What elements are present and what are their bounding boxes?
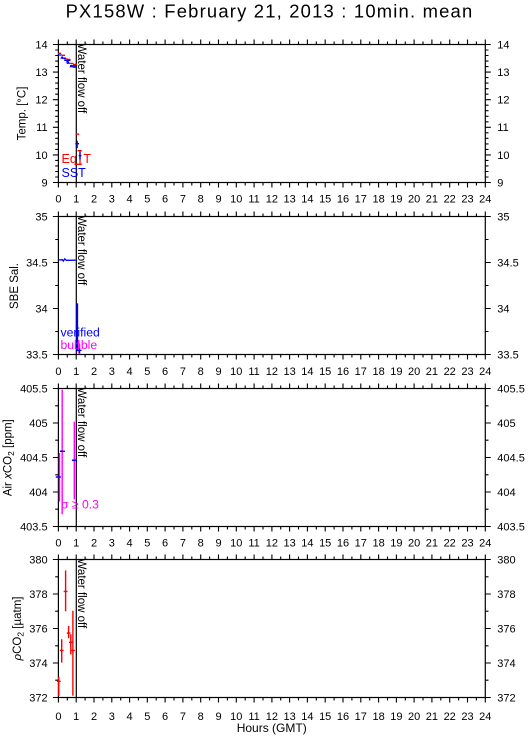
svg-text:12: 12 [497,95,509,107]
svg-text:bubble: bubble [61,338,98,352]
svg-text:9: 9 [497,177,503,189]
svg-text:10: 10 [35,150,47,162]
svg-text:19: 19 [390,194,402,206]
svg-text:35: 35 [497,211,509,223]
svg-text:13: 13 [283,537,295,549]
svg-text:376: 376 [497,623,515,635]
svg-text:Hours (GMT): Hours (GMT) [237,721,307,735]
svg-text:1: 1 [73,711,79,723]
svg-text:Water flow off: Water flow off [75,559,87,629]
svg-text:0: 0 [55,194,61,206]
panel1 SST blue triangle markers [60,56,76,68]
svg-text:20: 20 [408,537,420,549]
svg-text:6: 6 [162,711,168,723]
svg-text:374: 374 [29,658,47,670]
svg-text:Eq: Eq [62,152,77,166]
svg-text:7: 7 [180,711,186,723]
panel1 SST blue dash markers [58,55,76,66]
svg-text:22: 22 [444,537,456,549]
svg-text:23: 23 [461,537,473,549]
svg-text:378: 378 [29,589,47,601]
panel2 salinity blue trace [58,259,75,261]
svg-text:8: 8 [198,537,204,549]
svg-text:7: 7 [180,537,186,549]
svg-text:SBE Sal.: SBE Sal. [9,263,21,309]
svg-text:1: 1 [73,194,79,206]
svg-text:24: 24 [479,537,491,549]
svg-text:405: 405 [497,418,515,430]
svg-text:405.5: 405.5 [497,383,525,395]
svg-text:8: 8 [198,711,204,723]
svg-text:23: 23 [461,711,473,723]
svg-text:33.5: 33.5 [26,349,47,361]
svg-text:23: 23 [461,194,473,206]
svg-text:14: 14 [35,39,47,51]
svg-text:15: 15 [319,711,331,723]
svg-text:16: 16 [337,711,349,723]
svg-text:9: 9 [215,537,221,549]
svg-text:15: 15 [319,366,331,378]
svg-text:21: 21 [426,194,438,206]
svg-text:12: 12 [266,194,278,206]
water-flow-off event lines [75,45,77,183]
svg-text:2: 2 [91,194,97,206]
svg-text:11: 11 [248,194,259,206]
svg-text:21: 21 [426,366,438,378]
svg-text:3: 3 [109,537,115,549]
x tick labels [55,194,491,723]
svg-text:1: 1 [73,366,79,378]
svg-text:4: 4 [127,537,133,549]
svg-text:3: 3 [109,711,115,723]
svg-text:11: 11 [36,122,47,134]
svg-text:5: 5 [144,537,150,549]
svg-text:2: 2 [91,366,97,378]
svg-text:17: 17 [355,366,367,378]
svg-text:11: 11 [248,366,259,378]
svg-text:21: 21 [426,711,438,723]
svg-text:8: 8 [198,194,204,206]
svg-text:17: 17 [355,711,367,723]
svg-text:8: 8 [198,366,204,378]
svg-text:9: 9 [215,194,221,206]
svg-text:17: 17 [355,194,367,206]
svg-text:3: 3 [109,366,115,378]
panel1 EqT red dash markers [58,53,77,64]
svg-text:1: 1 [73,537,79,549]
svg-text:2: 2 [91,711,97,723]
svg-text:σ ≥ 0.3: σ ≥ 0.3 [61,497,99,511]
svg-text:34.5: 34.5 [497,257,518,269]
svg-text:4: 4 [127,366,133,378]
panel1 isolated red dash at water-off [76,133,80,135]
svg-text:34: 34 [497,303,509,315]
svg-text:SST: SST [62,166,87,180]
svg-text:13: 13 [497,67,509,79]
svg-text:35: 35 [35,211,47,223]
svg-text:380: 380 [497,554,515,566]
svg-text:9: 9 [215,711,221,723]
panel1 blue error marker lower [79,152,82,160]
svg-text:Water flow off: Water flow off [75,44,87,114]
svg-text:18: 18 [372,194,384,206]
svg-text:3: 3 [109,194,115,206]
svg-text:20: 20 [408,366,420,378]
svg-text:10: 10 [230,366,242,378]
svg-text:ρCO2 [µatm]: ρCO2 [µatm] [12,597,26,662]
svg-text:19: 19 [390,537,402,549]
svg-text:11: 11 [248,537,259,549]
svg-text:4: 4 [127,711,133,723]
svg-text:Air xCO2 [ppm]: Air xCO2 [ppm] [3,419,17,496]
svg-text:19: 19 [390,711,402,723]
svg-text:16: 16 [337,537,349,549]
svg-text:6: 6 [162,194,168,206]
svg-text:372: 372 [497,692,515,704]
svg-text:12: 12 [266,537,278,549]
svg-text:7: 7 [180,194,186,206]
svg-text:4: 4 [127,194,133,206]
svg-text:7: 7 [180,366,186,378]
svg-text:24: 24 [479,194,491,206]
svg-text:Water flow off: Water flow off [75,388,87,458]
panel2 bubble magenta marker [78,340,80,354]
panel3 blue mean dashes [56,451,77,477]
svg-text:0: 0 [55,711,61,723]
svg-text:34: 34 [35,303,47,315]
svg-text:13: 13 [35,67,47,79]
svg-text:6: 6 [162,366,168,378]
svg-text:19: 19 [390,366,402,378]
svg-text:22: 22 [444,366,456,378]
svg-text:9: 9 [41,177,47,189]
svg-text:21: 21 [426,537,438,549]
svg-text:14: 14 [301,366,313,378]
panel1 blue error marker upper [75,141,79,148]
svg-text:14: 14 [301,194,313,206]
panel1 red error bar [75,151,82,165]
svg-text:13: 13 [283,366,295,378]
svg-text:378: 378 [497,589,515,601]
svg-text:18: 18 [372,366,384,378]
panel3 xCO2 magenta error bars [60,390,75,515]
svg-text:10: 10 [230,537,242,549]
svg-text:22: 22 [444,194,456,206]
svg-text:372: 372 [29,692,47,704]
svg-text:11: 11 [497,122,508,134]
panel4 pCO2 red error bars [57,570,75,696]
panel2 blue plus marker [78,347,82,354]
svg-text:PX158W : February 21, 2013 : 1: PX158W : February 21, 2013 : 10min. mean [66,1,474,22]
svg-text:9: 9 [215,366,221,378]
svg-text:23: 23 [461,366,473,378]
svg-text:5: 5 [144,366,150,378]
svg-text:18: 18 [372,537,384,549]
svg-text:10: 10 [497,150,509,162]
svg-text:15: 15 [319,194,331,206]
svg-text:6: 6 [162,537,168,549]
svg-text:22: 22 [444,711,456,723]
svg-text:15: 15 [319,537,331,549]
svg-text:376: 376 [29,623,47,635]
svg-text:14: 14 [301,537,313,549]
svg-text:404: 404 [497,487,515,499]
svg-text:404.5: 404.5 [497,452,525,464]
svg-text:34.5: 34.5 [26,257,47,269]
svg-text:10: 10 [230,194,242,206]
svg-text:20: 20 [408,194,420,206]
svg-text:380: 380 [29,554,47,566]
svg-text:403.5: 403.5 [20,521,48,533]
svg-text:33.5: 33.5 [497,349,518,361]
svg-text:404.5: 404.5 [20,452,48,464]
svg-text:5: 5 [144,194,150,206]
svg-text:24: 24 [479,711,491,723]
plot frame and axes [53,40,491,703]
svg-text:404: 404 [29,487,47,499]
svg-text:405.5: 405.5 [20,383,48,395]
svg-text:13: 13 [283,194,295,206]
panel2 salinity drop line [76,303,78,351]
svg-text:16: 16 [337,194,349,206]
svg-text:405: 405 [29,418,47,430]
svg-text:Water flow off: Water flow off [75,216,87,286]
svg-text:12: 12 [266,366,278,378]
svg-text:20: 20 [408,711,420,723]
svg-text:5: 5 [144,711,150,723]
svg-text:0: 0 [55,537,61,549]
svg-text:18: 18 [372,711,384,723]
svg-text:374: 374 [497,658,515,670]
svg-text:17: 17 [355,537,367,549]
svg-text:2: 2 [91,537,97,549]
svg-text:Temp. [°C]: Temp. [°C] [17,87,29,141]
svg-text:14: 14 [497,39,509,51]
svg-text:24: 24 [479,366,491,378]
svg-text:0: 0 [55,366,61,378]
svg-text:T: T [83,152,91,166]
svg-text:16: 16 [337,366,349,378]
svg-text:12: 12 [35,95,47,107]
svg-text:403.5: 403.5 [497,521,525,533]
